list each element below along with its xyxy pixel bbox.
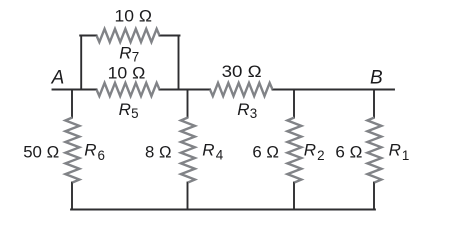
svg-text:R3: R3: [237, 100, 257, 121]
svg-text:8 Ω: 8 Ω: [145, 143, 172, 162]
svg-text:10 Ω: 10 Ω: [115, 7, 153, 26]
svg-text:50 Ω: 50 Ω: [23, 143, 59, 162]
svg-text:R5: R5: [119, 100, 139, 121]
svg-text:10 Ω: 10 Ω: [108, 63, 146, 82]
svg-text:A: A: [51, 68, 65, 89]
svg-text:30 Ω: 30 Ω: [222, 62, 262, 81]
svg-text:6 Ω: 6 Ω: [335, 143, 362, 162]
svg-text:R7: R7: [119, 44, 139, 65]
svg-text:R2: R2: [304, 140, 325, 162]
svg-text:R6: R6: [84, 140, 105, 162]
svg-text:B: B: [370, 68, 383, 89]
svg-text:R4: R4: [202, 140, 223, 162]
svg-text:R1: R1: [389, 140, 410, 162]
svg-text:6 Ω: 6 Ω: [252, 143, 279, 162]
